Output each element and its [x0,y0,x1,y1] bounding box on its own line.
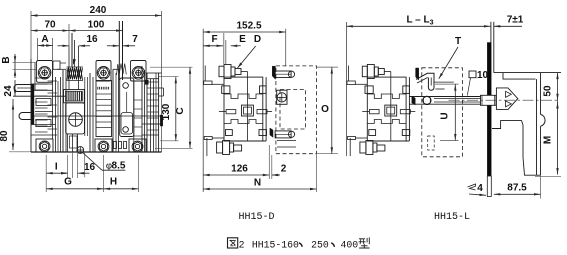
lv foot3 [129,139,146,152]
rv arm [410,97,481,105]
rv pivot [423,96,431,104]
lv foot screw1 [39,141,50,152]
md aux screw [277,90,287,104]
dim 80 [0,99,14,150]
dim N ext right [316,154,318,192]
lv left edge [31,59,35,152]
svg-text:I: I [55,162,58,173]
handle grip [496,88,517,110]
dim 70 [31,20,69,32]
centerline [449,99,560,101]
dim M [543,100,559,174]
lv center wires [72,33,75,67]
lv module G [96,81,112,137]
dim U [440,84,457,140]
svg-text:16: 16 [86,34,98,45]
svg-text:250: 250 [311,239,329,250]
lv foot2 [95,139,112,152]
svg-text:8.5: 8.5 [112,161,126,172]
lv screw2 [97,67,110,80]
panel black bar [487,43,491,177]
lv core circle [69,113,83,127]
lv aux module [120,78,134,137]
handle lower profile [492,121,541,176]
dim C ext bottom [155,147,193,149]
dim le4 [468,183,487,196]
dim 152.5 ext right [285,29,287,66]
lv black sq right [145,80,148,84]
lv ear3 [131,61,147,82]
panel front line [493,22,495,73]
lv knurl ticks [98,87,109,90]
panel rear line [490,22,492,43]
caption comma1 [299,243,302,247]
rv trip dashed box [422,68,463,157]
dim phi8.5 leader [82,152,126,172]
escutcheon top line [494,72,561,74]
lv ear3 col verticals [134,66,145,152]
md black wedge bottom [270,128,273,137]
svg-text:2: 2 [239,239,245,250]
svg-text:HH15-160: HH15-160 [252,239,299,250]
middle view HH15-D body [203,29,272,192]
lv ear3 stripes [134,100,142,136]
lv armature edges [69,46,79,90]
caption 250 [311,239,329,250]
dim 2 [272,164,287,177]
dim 240 ext right [161,11,163,152]
escutcheon bump [541,114,546,126]
lv top step [53,61,66,69]
rv hook lever [416,73,434,90]
dim O ext top [317,66,339,68]
md black wedge top [272,66,275,79]
dim O [321,67,333,154]
dim G [46,177,103,191]
lv right black bar [160,115,163,126]
lv left lug2 [19,113,31,120]
svg-text:H: H [110,177,117,188]
svg-text:F: F [211,34,217,45]
dim C ext top [150,66,193,68]
svg-text:D: D [254,34,261,45]
svg-text:7±1: 7±1 [507,15,524,26]
dim 7pm1 [494,15,524,28]
escutcheon notch [503,73,536,80]
dim B ext lines [13,63,37,70]
caption 400 [341,239,359,250]
lv screw3 [132,67,145,80]
lv body top line [57,68,66,70]
label HH15-L [434,212,470,223]
caption glyph xing [359,237,370,248]
dim 100 ext right [122,24,124,46]
lv comb teeth [114,142,127,149]
svg-text:70: 70 [44,20,56,31]
md aux lower lug [277,141,296,148]
escutcheon right pair [537,73,541,176]
lv right lug [159,88,164,96]
svg-text:HH15-L: HH15-L [434,212,470,223]
lv aux circle2 [123,127,129,133]
lv coil box [64,90,85,103]
lv col H top line [113,68,119,70]
svg-text:E: E [239,34,246,45]
caption 2 [239,239,245,250]
dim O ext bottom [317,153,339,155]
dim 87.5 [494,183,541,196]
dim 16 top [58,34,98,47]
dim 130 ext top [159,76,179,78]
grip triangles [506,91,512,107]
lv aux top zigzag [117,64,127,76]
svg-text:50: 50 [543,85,554,97]
dim 130 [161,77,177,141]
dim C [175,67,191,148]
svg-text:7: 7 [132,34,138,45]
svg-text:126: 126 [231,164,248,175]
dim U ext top [435,83,459,85]
svg-text:N: N [254,178,261,189]
svg-text:240: 240 [90,5,107,16]
dim D leader [238,34,262,68]
dim T leader [439,36,461,79]
rv shaft box [481,95,497,105]
lv foot screw3 [132,141,143,152]
dim 130 ext bottom [160,140,179,142]
svg-text:L – L3: L – L3 [406,15,433,27]
rv black wedge mid [412,96,415,105]
caption comma2 [331,243,334,247]
dim 16 bottom [61,162,95,174]
lv coil hatch [67,92,82,101]
rv trip inner dashed [428,136,435,150]
label HH15-D [238,212,274,223]
lv right mid lines [142,124,162,135]
svg-text:10: 10 [477,70,489,81]
svg-text:B: B [1,56,12,63]
dim 240 ext left [30,11,32,59]
dim M ext [535,175,561,177]
dim 126 ext right [268,145,270,179]
lv black cheek bar [31,84,34,125]
lv aux center line [126,92,128,112]
lv col F verticals [85,73,93,152]
dim 2 ext [271,155,273,179]
lv aux circle [123,83,129,89]
svg-text:M: M [543,136,554,144]
svg-text:24: 24 [3,85,14,97]
lv ear2 [96,61,111,82]
svg-text:T: T [455,36,461,47]
svg-text:16: 16 [84,162,96,173]
right view HH15-L body [347,22,416,156]
lv spring zigzag [67,67,84,81]
lv ear1 [37,61,53,83]
lv base line [31,151,162,153]
dim H [104,177,139,191]
dim F ext [224,33,226,64]
svg-text:152.5: 152.5 [236,21,261,32]
svg-text:100: 100 [88,20,105,31]
dim 152.5 [203,21,286,34]
dim I [46,162,67,175]
svg-text:87.5: 87.5 [507,183,527,194]
lv col H verticals [113,69,119,152]
lv right top lines [146,73,162,79]
md aux inner dashed [280,90,306,130]
dim 240 [31,5,162,17]
svg-text:2: 2 [281,164,287,175]
dim 70-100 shared ext [68,24,70,46]
dim L-L3 [346,15,490,28]
dim F [203,34,223,47]
dim A ext lines [38,38,53,60]
dim A [38,34,53,47]
svg-text:4: 4 [477,183,483,194]
caption HH15-160 [252,239,299,250]
caption glyph tu [228,238,238,248]
lv left shelf lines [13,84,66,135]
rv black wedge top [416,68,419,80]
lv screw1 [38,66,51,79]
dim 126 [203,164,269,177]
lv foot screw2 [98,141,109,152]
svg-text:G: G [64,177,72,188]
lv phi8.5 hole [77,147,84,154]
lv wire arrow [73,59,76,65]
dim 7 top [107,34,138,47]
lv center col bottom lines [68,134,78,152]
svg-text:C: C [175,107,186,114]
dim U ext bottom [440,140,459,142]
md aux dashed box [276,66,317,154]
rv hook arm lines [434,82,454,89]
lv foot1 [36,139,53,152]
lv right stack [147,73,159,152]
svg-text:A: A [41,34,48,45]
lv parting line [31,115,162,117]
dim E [231,34,246,47]
md aux terminal bottom [275,131,295,138]
lv aux wires [119,21,122,80]
dim sq10 [467,70,488,96]
md aux terminal top [275,71,295,78]
dim N [203,178,316,191]
lv right stripes [147,82,159,130]
lv core frame [66,103,85,134]
lv left fins [35,78,57,132]
svg-text:400: 400 [341,239,359,250]
dim 87.5 ext right [540,175,542,198]
svg-text:U: U [440,112,451,119]
dim 24 [3,80,16,97]
dim 100 [69,20,123,32]
lv left small rects [36,99,51,127]
panel bar lower outline [487,176,491,197]
lv left stack verticals [53,63,66,153]
lv left lug [14,85,31,92]
dim 80 bottom ext [9,151,31,153]
dim 50 [543,73,559,101]
svg-text:80: 80 [0,130,10,142]
svg-text:HH15-D: HH15-D [238,212,274,223]
svg-text:O: O [321,104,329,115]
lv aux inner rect [121,113,133,135]
dim B [1,54,16,78]
lv bottom ext lines [46,152,138,192]
